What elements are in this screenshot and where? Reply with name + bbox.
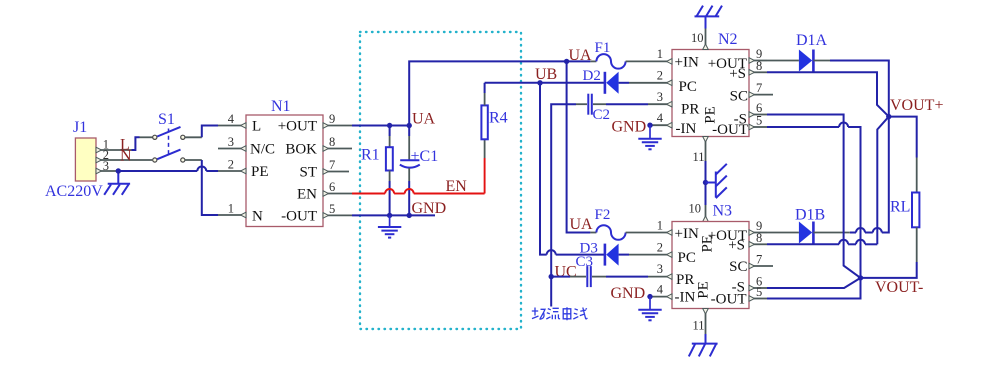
wire UA vertical and top run: [409, 61, 590, 125]
wire GND from N1 pin5: [352, 214, 435, 216]
svg-text:3: 3: [228, 135, 234, 149]
svg-text:11: 11: [693, 319, 705, 333]
wire N2 -OUT to VOUT- with hop: [767, 123, 861, 278]
svg-text:10: 10: [691, 31, 704, 45]
junction PE chain: [703, 180, 708, 185]
chassis ground (side) at PE chain: [706, 164, 727, 198]
svg-text:AC220V: AC220V: [45, 183, 103, 200]
svg-text:5: 5: [756, 114, 762, 128]
svg-text:1: 1: [657, 219, 663, 233]
junction C1 top: [407, 123, 412, 128]
wire PE chain N2 pin11 to N3 pin10: [705, 161, 707, 205]
N2 pin numbers: [657, 47, 664, 125]
svg-text:SC: SC: [729, 259, 747, 275]
junction R1 bottom: [387, 213, 392, 218]
wire N2 -S to VOUT-: [767, 115, 861, 278]
svg-text:L: L: [252, 119, 261, 135]
N3 pin 10 stub: [689, 202, 709, 222]
wire VOUT- down to N3 -OUT: [767, 278, 861, 299]
switch S1: [153, 111, 185, 162]
junction UC branch: [549, 274, 554, 279]
svg-text:6: 6: [329, 180, 335, 194]
svg-text:8: 8: [756, 231, 762, 245]
svg-text:GND: GND: [611, 285, 646, 302]
svg-text:N/C: N/C: [250, 142, 275, 158]
svg-text:2: 2: [657, 241, 663, 255]
svg-text:VOUT+: VOUT+: [890, 97, 943, 114]
junction C1 bottom: [407, 213, 412, 218]
capacitor C1 (polarized): [400, 126, 438, 216]
svg-text:7: 7: [756, 81, 762, 95]
diode D1B: [767, 207, 850, 244]
svg-text:1: 1: [657, 47, 663, 61]
svg-text:BOK: BOK: [285, 142, 317, 158]
svg-text:9: 9: [329, 112, 335, 126]
svg-text:3: 3: [657, 90, 663, 104]
svg-text:J1: J1: [73, 119, 87, 136]
N2 right pin stubs: [752, 61, 773, 128]
N3 pin numbers: [657, 219, 664, 297]
N2 pin 11 stub: [693, 137, 709, 165]
svg-text:7: 7: [329, 158, 335, 172]
svg-text:4: 4: [657, 111, 664, 125]
svg-text:N: N: [252, 208, 263, 224]
earth ground at N2 pin4: [638, 125, 661, 149]
N2 left pin arrows: [667, 59, 673, 128]
wire VOUT+ to RL: [889, 117, 917, 158]
node VOUT+: [886, 114, 891, 119]
svg-text:+C1: +C1: [411, 148, 439, 165]
svg-text:UB: UB: [535, 66, 557, 83]
earth ground at N3 pin4: [638, 297, 661, 321]
svg-text:-IN: -IN: [676, 121, 697, 137]
svg-text:4: 4: [657, 283, 664, 297]
N2 pin 10 stub: [691, 29, 708, 50]
junction N2 pin4: [647, 123, 652, 128]
svg-text:11: 11: [693, 150, 705, 164]
svg-text:PR: PR: [681, 102, 699, 118]
chassis ground below N3: [689, 334, 718, 356]
svg-text:8: 8: [756, 59, 762, 73]
N1 pin names: [250, 119, 317, 225]
capacitor C3: [551, 254, 672, 287]
svg-text:UC: UC: [555, 264, 577, 281]
J1 pin 2 stub: [96, 157, 152, 163]
resistor RL: [890, 158, 919, 263]
module N2: [672, 31, 749, 137]
svg-text:SC: SC: [730, 89, 748, 105]
svg-text:N3: N3: [713, 203, 733, 220]
diode D3: [580, 241, 673, 266]
wire D1A to VOUT+: [830, 61, 889, 117]
wire N3 +S to VOUT+ with hops: [767, 117, 889, 245]
N3 pin 11 stub: [693, 309, 709, 335]
svg-text:3: 3: [657, 262, 663, 276]
svg-text:PE: PE: [703, 106, 719, 124]
svg-text:2: 2: [228, 158, 234, 172]
current sharing bus label (Chinese): [532, 307, 588, 320]
svg-text:PC: PC: [679, 79, 697, 95]
svg-text:EN: EN: [446, 178, 468, 195]
svg-text:PE: PE: [251, 164, 269, 180]
svg-text:GND: GND: [612, 119, 647, 136]
svg-text:D1A: D1A: [796, 32, 828, 49]
N1 left pin stubs: [218, 126, 243, 216]
wire switch pole2 to N1 pin1: [185, 159, 202, 161]
fuse F1: [590, 40, 672, 69]
svg-text:PR: PR: [676, 272, 694, 288]
svg-text:+IN: +IN: [675, 226, 699, 242]
N1 right pin stubs: [326, 126, 352, 216]
svg-text:R4: R4: [489, 110, 508, 127]
connector J1: [73, 119, 96, 181]
fuse F2: [590, 207, 672, 240]
svg-text:ST: ST: [299, 165, 317, 181]
wire GND at N3 pin4: [650, 296, 667, 298]
wire RL bottom to VOUT-: [861, 262, 917, 278]
svg-text:D2: D2: [583, 68, 601, 84]
svg-text:C2: C2: [593, 107, 611, 123]
junction R1 top: [387, 123, 392, 128]
svg-text:F1: F1: [595, 40, 611, 56]
wire C2 corner / net B vertical: [551, 104, 576, 306]
svg-text:2: 2: [657, 69, 663, 83]
N3 right pin stubs: [752, 233, 773, 299]
wire UB run R4 top to D2: [485, 82, 605, 84]
svg-text:RL: RL: [890, 199, 910, 216]
wire EN (red) from N1 pin6 to R4 with hops: [352, 158, 485, 194]
node VOUT-: [858, 275, 863, 280]
wire J1 pin1 to switch: [132, 137, 140, 150]
J1 pin 1 stub: [96, 147, 132, 153]
wire GND at N2 pin4: [650, 124, 667, 126]
diode D1A: [767, 32, 830, 72]
svg-text:VOUT-: VOUT-: [875, 279, 923, 296]
junction at J1 pin3: [116, 168, 121, 173]
wire net A vertical (UB to D3) with hop: [540, 83, 604, 255]
svg-text:7: 7: [756, 253, 762, 267]
svg-text:N1: N1: [271, 98, 291, 115]
wire N1 pin9 to UA node: [352, 125, 409, 127]
wire UA branch vertical to F2: [567, 61, 591, 232]
svg-text:8: 8: [329, 135, 335, 149]
resistor R4: [481, 83, 507, 158]
svg-text:GND: GND: [412, 200, 447, 217]
svg-text:UA: UA: [569, 47, 593, 64]
capacitor C2: [576, 94, 672, 123]
wire N2 +S to VOUT+: [767, 72, 889, 116]
N3 left pin arrows: [667, 230, 673, 300]
svg-text:UA: UA: [412, 111, 436, 128]
svg-text:D1B: D1B: [795, 207, 825, 224]
earth ground under R1: [378, 215, 401, 237]
wire switch pole1 to N1 pin4: [185, 136, 202, 138]
svg-text:PE: PE: [696, 281, 712, 299]
junction N3 pin4: [647, 294, 652, 299]
svg-text:+S: +S: [729, 66, 746, 82]
J1 pin 3 stub: [96, 168, 117, 174]
wire N3 -S to VOUT-: [767, 278, 861, 288]
dotted selection box: [360, 32, 521, 329]
svg-text:5: 5: [756, 285, 762, 299]
svg-text:PE: PE: [700, 235, 716, 253]
svg-text:4: 4: [228, 112, 235, 126]
module N3: [672, 203, 749, 309]
svg-text:PC: PC: [678, 250, 696, 266]
junction UA branch: [564, 59, 569, 64]
svg-text:+OUT: +OUT: [278, 119, 317, 135]
N1 pin numbers: [228, 112, 235, 216]
wire VOUT+ down to D1B row with hops: [850, 117, 889, 233]
diode D2: [583, 68, 673, 94]
svg-text:S1: S1: [158, 111, 175, 128]
chassis ground above N2: [695, 6, 723, 29]
N2 pin names: [675, 55, 749, 139]
svg-text:N: N: [120, 148, 132, 165]
svg-text:-OUT: -OUT: [281, 209, 317, 225]
J1 pin numbers: [103, 138, 109, 174]
svg-text:N2: N2: [718, 31, 738, 48]
svg-text:-IN: -IN: [675, 290, 696, 306]
svg-text:10: 10: [689, 202, 702, 216]
N3 pin names: [675, 226, 748, 308]
resistor R1: [361, 126, 393, 216]
svg-text:UA: UA: [570, 216, 594, 233]
svg-text:1: 1: [228, 202, 234, 216]
svg-text:R1: R1: [361, 147, 380, 164]
svg-text:C3: C3: [576, 254, 594, 270]
svg-text:5: 5: [329, 202, 335, 216]
svg-text:+IN: +IN: [675, 55, 699, 71]
module N1: [246, 98, 323, 227]
chassis ground at J1 pin3: [104, 171, 130, 195]
svg-text:F2: F2: [595, 207, 611, 223]
svg-text:EN: EN: [297, 187, 317, 203]
svg-text:-OUT: -OUT: [711, 292, 747, 308]
svg-text:+S: +S: [728, 238, 745, 254]
junction UB branch: [537, 80, 542, 85]
svg-text:3: 3: [103, 159, 109, 173]
wire PE J1 pin3 to N1 pin2 with hop: [118, 167, 218, 172]
